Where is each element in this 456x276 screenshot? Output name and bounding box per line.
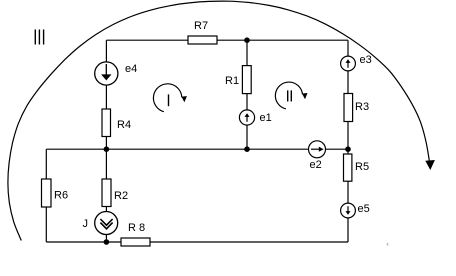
small stray olive mark bottom right [387,243,388,246]
svg-text:R5: R5 [355,161,369,173]
node: middle junction R4/R2 [104,146,110,152]
source e1 (circle with up arrow) [239,110,254,125]
wire: middle horizontal [46,148,348,150]
current source J (circle with double chevron down) [95,212,118,235]
resistor R6 [42,179,52,207]
resistor R4 [102,109,111,137]
wire: middle branch vertical R1/e1 (top node to middle node) [246,40,248,149]
source e3 (circle with up arrow) [341,56,356,71]
label I (loop I) [168,94,170,106]
resistor R3 [344,94,353,122]
node: top junction R7/R1 [244,37,250,43]
wire: right branch vertical e3/R3/R5/e5 [347,40,349,242]
wire: bottom horizontal [46,241,348,243]
node: bottom junction J/R8 [104,239,110,245]
source e2 (circle with right arrow) [309,141,326,158]
svg-text:R1: R1 [225,75,239,87]
loop II arrow (circular arrow) [275,82,307,109]
resistor R7 [188,36,217,44]
label III (loop III tick marks) [35,30,43,45]
wire: left branch vertical e4/R4 (top corner to middle node) [105,40,107,149]
source e4 (circle with down arrow) [95,62,118,85]
svg-text:R 8: R 8 [128,222,145,234]
svg-text:e5: e5 [358,203,370,215]
svg-text:R2: R2 [114,190,128,202]
wire: left outer vertical R6 [45,149,47,242]
svg-text:e4: e4 [125,63,137,75]
svg-text:R3: R3 [355,101,369,113]
node: middle junction e2/R5 [345,146,351,152]
loop I arrow (circular arrow) [153,84,186,112]
svg-text:R6: R6 [54,190,68,202]
resistor R5 [344,154,352,181]
svg-text:R4: R4 [117,119,131,131]
svg-text:e1: e1 [260,112,272,124]
svg-text:J: J [83,218,89,230]
svg-text:e3: e3 [360,54,372,66]
resistor R8 [121,238,150,246]
source e5 (circle with down arrow) [341,203,356,218]
node: middle junction e1 [244,146,250,152]
wire: branch vertical R2/J (middle node to bottom node) [105,149,107,242]
resistor R1 [242,66,251,94]
label II (loop II) [288,90,292,101]
resistor R2 [102,179,111,207]
wire: top horizontal from e4 branch to right branch [106,39,348,41]
svg-text:e2: e2 [310,159,322,171]
svg-text:R7: R7 [194,20,208,32]
